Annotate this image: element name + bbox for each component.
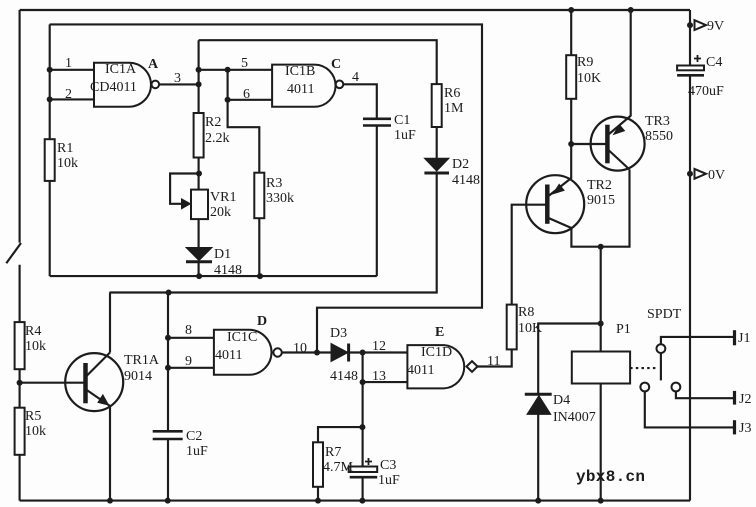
svg-text:9014: 9014 xyxy=(124,369,152,384)
svg-text:C3: C3 xyxy=(380,458,396,473)
svg-text:470uF: 470uF xyxy=(688,84,724,99)
svg-text:9: 9 xyxy=(185,354,192,369)
svg-text:8550: 8550 xyxy=(645,129,673,144)
svg-text:2: 2 xyxy=(65,87,72,102)
svg-text:IN4007: IN4007 xyxy=(553,410,596,425)
svg-text:4.7M: 4.7M xyxy=(323,460,354,475)
svg-text:IC1A: IC1A xyxy=(105,62,137,77)
svg-text:J3: J3 xyxy=(739,421,751,436)
svg-text:13: 13 xyxy=(372,369,386,384)
svg-text:330k: 330k xyxy=(266,191,294,206)
svg-text:R1: R1 xyxy=(57,141,73,156)
svg-text:C2: C2 xyxy=(186,429,202,444)
svg-text:10k: 10k xyxy=(25,339,46,354)
svg-text:4148: 4148 xyxy=(452,173,480,188)
svg-text:TR2: TR2 xyxy=(587,178,612,193)
svg-text:8: 8 xyxy=(185,323,192,338)
svg-text:R2: R2 xyxy=(205,115,221,130)
svg-text:D2: D2 xyxy=(452,157,469,172)
svg-text:C: C xyxy=(331,57,341,72)
svg-text:4011: 4011 xyxy=(215,348,242,363)
svg-text:C1: C1 xyxy=(394,113,410,128)
svg-text:20k: 20k xyxy=(210,205,231,220)
svg-text:1: 1 xyxy=(65,56,72,71)
svg-text:C4: C4 xyxy=(706,55,722,70)
svg-text:VR1: VR1 xyxy=(210,190,236,205)
svg-text:5: 5 xyxy=(241,56,248,71)
svg-text:0V: 0V xyxy=(708,168,725,183)
svg-text:P1: P1 xyxy=(616,322,631,337)
svg-text:1uF: 1uF xyxy=(378,473,400,488)
svg-text:10k: 10k xyxy=(25,424,46,439)
svg-text:6: 6 xyxy=(243,87,250,102)
svg-text:J1: J1 xyxy=(738,331,750,346)
svg-text:IC1D: IC1D xyxy=(421,345,452,360)
svg-text:R5: R5 xyxy=(25,409,41,424)
svg-text:D1: D1 xyxy=(214,247,231,262)
svg-text:12: 12 xyxy=(372,339,386,354)
svg-text:J2: J2 xyxy=(739,392,751,407)
svg-text:TR1A: TR1A xyxy=(124,353,160,368)
svg-text:4011: 4011 xyxy=(407,363,434,378)
svg-text:TR3: TR3 xyxy=(645,114,670,129)
svg-text:9V: 9V xyxy=(707,19,724,34)
svg-text:E: E xyxy=(435,325,444,340)
svg-text:4148: 4148 xyxy=(330,369,358,384)
svg-text:4: 4 xyxy=(352,70,359,85)
svg-text:R8: R8 xyxy=(518,305,534,320)
svg-text:R9: R9 xyxy=(577,55,593,70)
svg-text:2.2k: 2.2k xyxy=(205,131,230,146)
svg-text:R3: R3 xyxy=(266,176,282,191)
svg-text:1uF: 1uF xyxy=(394,128,416,143)
svg-text:1M: 1M xyxy=(444,101,464,116)
svg-text:R7: R7 xyxy=(325,445,341,460)
svg-text:10k: 10k xyxy=(57,156,78,171)
svg-text:3: 3 xyxy=(174,71,181,86)
svg-text:10: 10 xyxy=(293,341,307,356)
svg-text:R4: R4 xyxy=(25,324,41,339)
svg-text:11: 11 xyxy=(487,354,500,369)
svg-text:ybx8.cn: ybx8.cn xyxy=(576,468,645,486)
svg-text:9015: 9015 xyxy=(587,193,615,208)
svg-text:R6: R6 xyxy=(444,86,460,101)
svg-text:SPDT: SPDT xyxy=(647,307,682,322)
svg-text:D: D xyxy=(257,314,267,329)
svg-text:IC1C: IC1C xyxy=(227,330,257,345)
svg-text:4148: 4148 xyxy=(214,263,242,278)
svg-text:4011: 4011 xyxy=(287,82,314,97)
svg-text:10K: 10K xyxy=(518,321,542,336)
svg-text:D4: D4 xyxy=(553,393,570,408)
svg-text:IC1B: IC1B xyxy=(285,64,315,79)
svg-text:A: A xyxy=(148,57,159,72)
svg-text:1uF: 1uF xyxy=(186,444,208,459)
svg-text:CD4011: CD4011 xyxy=(90,80,137,95)
svg-text:10K: 10K xyxy=(577,71,601,86)
svg-text:D3: D3 xyxy=(330,326,347,341)
